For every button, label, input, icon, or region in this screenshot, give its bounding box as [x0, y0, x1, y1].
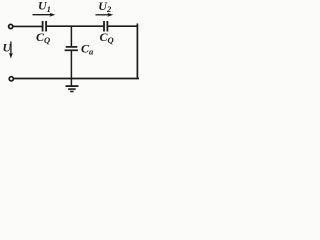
wire middle branch lower	[70, 51, 72, 79]
voltage arrow U	[9, 42, 13, 59]
terminal top-left	[9, 24, 13, 28]
terminal bottom-left	[9, 77, 13, 81]
wire middle branch upper	[70, 26, 72, 47]
voltage arrow U1	[33, 13, 56, 17]
capacitor CQ1 left plate	[42, 21, 44, 32]
ground	[66, 78, 79, 91]
wire top rail left segment	[13, 25, 42, 27]
capacitor Ca top plate	[66, 46, 78, 48]
svg-text:CQ: CQ	[100, 30, 114, 45]
svg-text:U1: U1	[38, 0, 51, 14]
svg-text:U2: U2	[98, 0, 112, 14]
svg-text:Ca: Ca	[81, 42, 94, 57]
svg-text:CQ: CQ	[36, 30, 50, 45]
wire right edge vertical	[136, 24, 138, 80]
capacitor CQ2 right plate	[106, 21, 108, 32]
wire top rail right segment	[108, 25, 138, 27]
wire top rail middle segment	[47, 25, 104, 27]
capacitor Ca bottom plate	[65, 49, 78, 51]
voltage arrow U2	[96, 13, 114, 17]
capacitor CQ1 right plate	[45, 21, 47, 32]
wire bottom rail	[14, 78, 139, 80]
capacitor CQ2 left plate	[103, 21, 105, 32]
